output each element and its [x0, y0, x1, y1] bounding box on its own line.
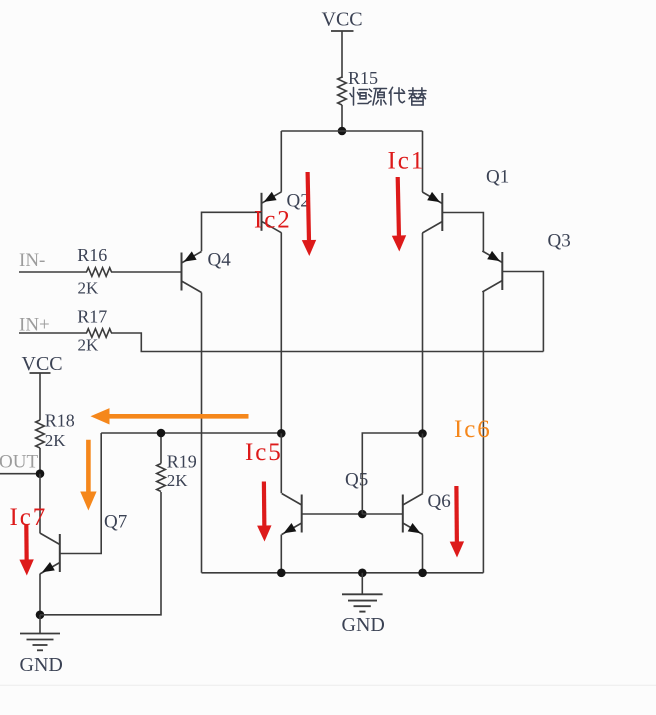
svg-text:Ic2: Ic2 — [254, 207, 292, 234]
wire Q6 base — [362, 513, 403, 515]
svg-text:Ic7: Ic7 — [10, 504, 48, 531]
wire R19 top to base net — [160, 433, 162, 464]
svg-text:R19: R19 — [167, 452, 197, 472]
wire Q5 base to center node — [302, 513, 363, 515]
transistor Q3 — [482, 251, 502, 292]
wire rail to Q2 emitter — [280, 131, 282, 192]
wire Q2 collector down — [280, 233, 282, 433]
resistor R19 — [157, 464, 166, 492]
transistor Q5 — [282, 494, 302, 535]
node Q7 emitter junction — [36, 611, 45, 620]
svg-text:2K: 2K — [78, 336, 100, 355]
svg-text:R18: R18 — [45, 411, 75, 431]
wire rail to Q1 emitter — [422, 131, 424, 192]
svg-text:IN-: IN- — [19, 250, 45, 271]
svg-text:OUT: OUT — [0, 452, 38, 473]
svg-text:VCC: VCC — [22, 353, 63, 375]
wire R16 to Q4 base — [111, 271, 182, 273]
resistor R17 — [87, 329, 112, 338]
node Q1 collector junction — [418, 429, 427, 438]
power VCC (top) — [322, 9, 363, 32]
svg-text:R17: R17 — [77, 307, 107, 327]
svg-text:R15: R15 — [348, 68, 378, 88]
svg-text:Ic1: Ic1 — [388, 148, 426, 175]
wire Q3 base to IN+ line — [502, 272, 543, 352]
svg-text:VCC: VCC — [322, 9, 363, 31]
wire bottom rail — [202, 572, 484, 574]
transistor Q6 — [403, 494, 423, 535]
wire node to Q5 collector — [280, 433, 282, 493]
wire top rail — [281, 130, 422, 132]
node OUT junction — [36, 469, 45, 478]
wire VCC to R15 — [341, 31, 343, 78]
svg-text:Q5: Q5 — [345, 470, 368, 491]
svg-text:Ic5: Ic5 — [245, 439, 283, 466]
transistor Q4 — [182, 251, 202, 292]
annotation arrow feedback (horizontal orange) — [91, 408, 249, 424]
transistor Q7 — [40, 533, 60, 574]
node Q5 emitter junction — [277, 569, 286, 578]
resistor R15 — [338, 77, 347, 105]
wire Q6 emitter down — [422, 535, 424, 573]
node R19 top junction — [157, 429, 166, 438]
svg-text:Q1: Q1 — [486, 167, 509, 188]
wire base net horizontal — [101, 432, 281, 434]
transistor Q1 — [422, 192, 442, 233]
annotation arrow Ic5 current — [257, 482, 271, 542]
node ground rail junction — [358, 569, 367, 578]
svg-text:2K: 2K — [78, 279, 100, 298]
ground GND (left) — [20, 615, 63, 676]
wire R17 to Q3 base net — [111, 333, 543, 352]
node top rail junction — [338, 127, 347, 136]
node Q2 collector junction — [277, 429, 286, 438]
wire Q5 emitter down — [280, 535, 282, 573]
wire OUT node to Q7 collector — [39, 474, 41, 533]
annotation arrow Ic7 current — [19, 524, 33, 576]
svg-text:Ic6: Ic6 — [454, 416, 492, 443]
svg-text:Q3: Q3 — [548, 231, 571, 252]
svg-text:R16: R16 — [77, 245, 107, 265]
wire ground node to R19 bottom — [40, 492, 161, 615]
resistor R18 — [36, 420, 45, 448]
wire OUT stub — [0, 473, 40, 475]
wire Q3 collector down — [482, 292, 484, 573]
ground GND (center) — [342, 573, 385, 636]
wire R15 to rail node — [341, 105, 343, 131]
svg-text:GND: GND — [20, 654, 63, 676]
faint separator line — [0, 684, 656, 686]
wire IN- to R16 — [19, 271, 87, 273]
annotation arrow down (vertical orange) — [80, 440, 96, 511]
node Q6 emitter junction — [418, 569, 427, 578]
wire R18 to OUT node — [39, 448, 41, 474]
annotation arrow Ic1 current — [392, 177, 406, 252]
resistor R16 — [87, 268, 112, 277]
wire Q1 base to Q3 emitter — [442, 213, 483, 252]
power VCC (left) — [22, 353, 63, 375]
annotation arrow Ic2 current — [302, 172, 316, 256]
wire Q7 emitter to ground node — [39, 574, 41, 615]
wire Q4 collector down — [201, 293, 203, 573]
label 恒源代替 (value note) — [350, 87, 426, 105]
node mirror base junction — [358, 510, 367, 519]
wire IN+ to R17 — [19, 332, 87, 334]
svg-text:2K: 2K — [45, 431, 67, 450]
wire Q2 base to Q4 emitter — [202, 212, 262, 251]
svg-text:Q4: Q4 — [208, 250, 232, 271]
svg-text:Q6: Q6 — [428, 491, 451, 512]
annotation arrow Ic6 current — [450, 486, 464, 558]
wire node to Q6 collector — [422, 434, 424, 494]
svg-text:2K: 2K — [167, 471, 189, 490]
wire VCC to R18 — [39, 373, 41, 420]
wire Q7 base up — [60, 433, 101, 554]
svg-text:GND: GND — [342, 614, 385, 636]
wire center node up and right — [362, 433, 422, 514]
wire Q1 collector down — [422, 233, 424, 434]
svg-text:Q7: Q7 — [104, 512, 127, 533]
transistor Q2 — [262, 192, 282, 233]
